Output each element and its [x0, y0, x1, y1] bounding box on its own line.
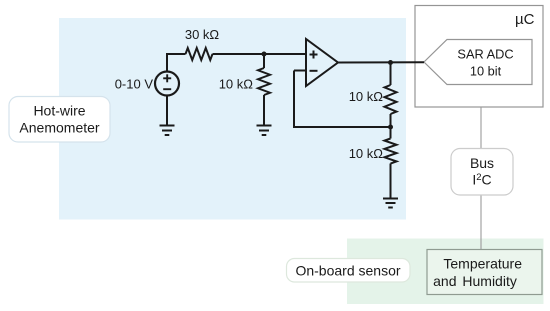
wire: R2 to ground: [263, 95, 265, 126]
svg-text:10 kΩ: 10 kΩ: [349, 146, 384, 161]
svg-text:SAR ADC: SAR ADC: [457, 47, 513, 62]
on-board sensor label box: [287, 259, 411, 283]
ground (V1): [160, 126, 175, 136]
resistor R2 10 kΩ (vertical): [258, 68, 270, 95]
microcontroller block U2 (µC): [415, 6, 543, 108]
svg-text:Anemometer: Anemometer: [19, 120, 99, 136]
hot-wire anemometer label box: [9, 97, 110, 143]
wire: feedback path (inverting input to node B): [294, 71, 391, 128]
wire: node C down to resistor R3: [390, 63, 392, 86]
node C (output junction): [388, 60, 393, 65]
svg-text:On-board sensor: On-board sensor: [295, 263, 400, 279]
svg-text:30 kΩ: 30 kΩ: [185, 27, 220, 42]
analog front-end background panel (light blue): [59, 18, 406, 220]
bus connector line (I2C bus to sensor): [480, 195, 482, 250]
resistor R4 10 kΩ (vertical, to ground): [385, 139, 397, 164]
node A (junction at R2 top): [262, 52, 267, 57]
on-board sensor background panel (light green): [347, 239, 544, 305]
svg-text:Bus: Bus: [470, 155, 494, 171]
wire: source top to resistor R1: [167, 54, 186, 73]
resistor R3 10 kΩ (vertical, feedback): [385, 85, 397, 114]
svg-text:and Humidity: and Humidity: [433, 273, 517, 289]
svg-text:µC: µC: [515, 11, 535, 28]
wire: R3 to node B: [390, 114, 392, 127]
SAR ADC block (inside µC): [424, 40, 532, 85]
op-amp U1: [306, 39, 338, 86]
wire: node A down to resistor R2: [263, 54, 265, 68]
wire: op-amp output to ADC input: [337, 61, 424, 63]
svg-text:Temperature: Temperature: [443, 256, 522, 272]
voltage source V1 (0-10 V): [155, 72, 179, 96]
svg-text:10 kΩ: 10 kΩ: [349, 89, 384, 104]
svg-text:10 kΩ: 10 kΩ: [219, 77, 254, 92]
ground (R4): [383, 199, 398, 208]
temperature and humidity sensor block: [427, 250, 542, 295]
wire: R4 to ground: [390, 164, 392, 199]
bus connector line (µC to I2C bus): [480, 107, 482, 150]
wire: inverting input stub: [294, 70, 307, 72]
svg-text:10 bit: 10 bit: [470, 64, 502, 79]
svg-text:I2C: I2C: [472, 172, 491, 188]
I2C bus label box: [451, 149, 513, 196]
node B (feedback junction): [388, 125, 393, 130]
svg-text:0-10 V: 0-10 V: [115, 77, 154, 92]
wire: source bottom to ground: [166, 95, 168, 127]
svg-text:Hot-wire: Hot-wire: [33, 103, 85, 119]
wire: node B down to resistor R4: [390, 127, 392, 139]
ground (R2): [257, 126, 272, 136]
resistor R1 30 kΩ (horizontal): [186, 48, 213, 60]
wire: R1 to op-amp non-inverting input: [213, 53, 307, 55]
